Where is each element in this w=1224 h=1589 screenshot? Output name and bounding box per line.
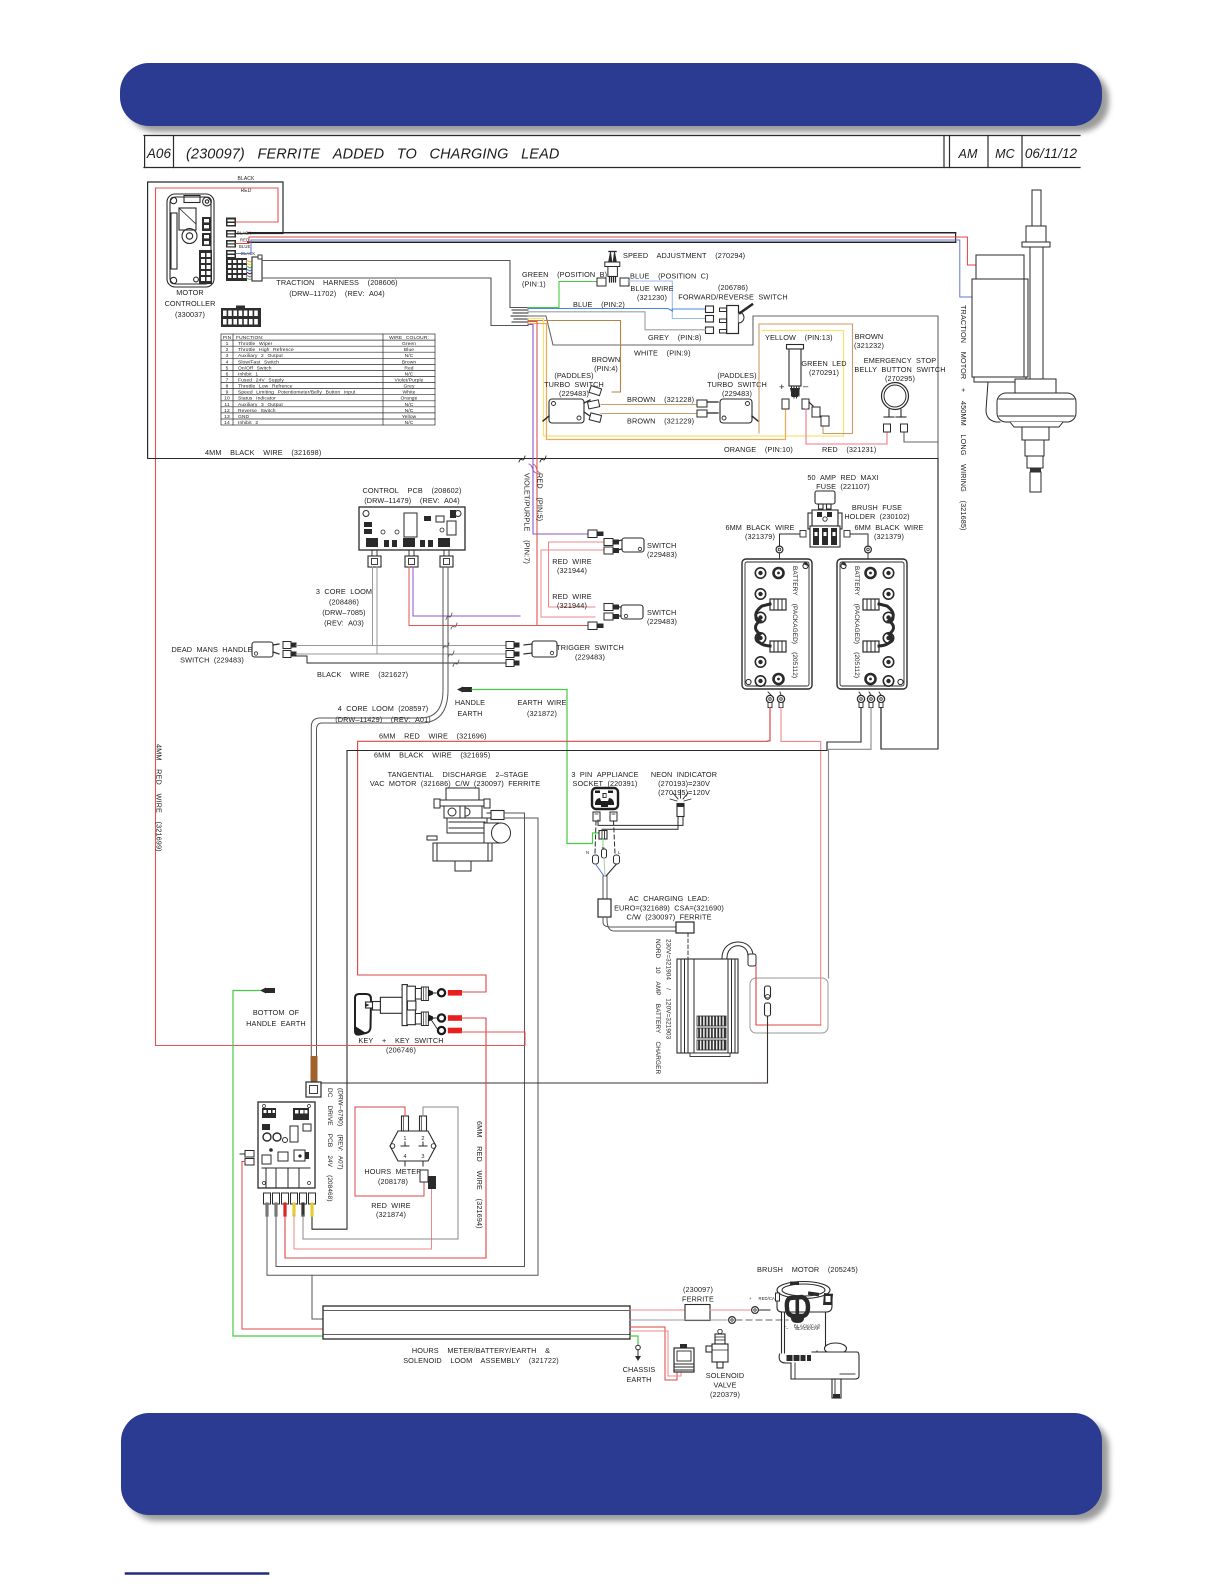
svg-text:(PADDLES): (PADDLES) — [717, 371, 756, 380]
svg-text:RED WIRE: RED WIRE — [552, 557, 592, 566]
green wire pin1 to speed pot — [528, 282, 598, 308]
vac motor drawing — [427, 788, 511, 871]
pin header drawing — [221, 308, 261, 327]
chassis earth — [630, 1336, 638, 1345]
junction transition — [511, 310, 528, 322]
3 pin appliance socket — [592, 788, 618, 809]
svg-text:BROWN: BROWN — [855, 332, 883, 341]
svg-text:SWITCH (229483): SWITCH (229483) — [180, 656, 244, 665]
green earth wire to socket — [472, 690, 599, 844]
svg-text:(229483): (229483) — [647, 617, 677, 626]
svg-text:BLUE (PIN:2): BLUE (PIN:2) — [573, 300, 625, 309]
svg-text:BRUSH FUSE: BRUSH FUSE — [852, 503, 902, 512]
svg-text:(270295): (270295) — [885, 374, 915, 383]
svg-text:(229483): (229483) — [647, 550, 677, 559]
blue pin2 wire — [528, 309, 706, 312]
title block table — [144, 136, 1080, 168]
svg-text:FUNCTION:: FUNCTION: — [236, 335, 264, 341]
svg-text:Speed Limiting Potentiometer/B: Speed Limiting Potentiometer/Belly Butto… — [238, 390, 356, 396]
svg-text:EURO=(321689) CSA=(321690): EURO=(321689) CSA=(321690) — [614, 904, 724, 913]
red 321231 wire — [806, 409, 887, 444]
svg-text:CHASSIS: CHASSIS — [623, 1365, 656, 1374]
svg-text:Brown: Brown — [402, 359, 417, 365]
svg-text:CONTROLLER: CONTROLLER — [165, 299, 216, 308]
svg-text:(321944): (321944) — [557, 566, 587, 575]
svg-text:TRACTION MOTOR + 450MM LON: TRACTION MOTOR + 450MM LONG WIRING (3216… — [959, 305, 968, 531]
svg-text:AC CHARGING LEAD:: AC CHARGING LEAD: — [629, 894, 710, 903]
svg-text:(270195)=120V: (270195)=120V — [658, 788, 710, 797]
thick traction bundle wires to motor — [248, 232, 956, 234]
svg-text:SOLENOID LOOM ASSEMBLY (321: SOLENOID LOOM ASSEMBLY (321722) — [403, 1356, 559, 1365]
svg-text:8: 8 — [226, 384, 229, 390]
svg-text:FUSE (221107): FUSE (221107) — [816, 482, 870, 491]
svg-text:HOURS METER/BATTERY/EARTH &: HOURS METER/BATTERY/EARTH & — [412, 1346, 550, 1355]
svg-text:Inhibit 2: Inhibit 2 — [238, 420, 258, 426]
svg-text:Red: Red — [404, 365, 413, 371]
svg-text:SWITCH: SWITCH — [647, 608, 676, 617]
svg-text:N/C: N/C — [405, 408, 414, 414]
svg-text:MC: MC — [995, 147, 1016, 161]
svg-text:6: 6 — [226, 371, 229, 377]
svg-text:(206786): (206786) — [718, 283, 748, 292]
bottom of handle earth — [260, 988, 266, 994]
break marks — [519, 456, 525, 462]
svg-text:White: White — [402, 390, 415, 396]
svg-text:13: 13 — [224, 414, 230, 420]
svg-text:Violet/Purple: Violet/Purple — [395, 378, 424, 384]
svg-text:3 CORE LOOM: 3 CORE LOOM — [316, 587, 372, 596]
svg-text:Grey: Grey — [404, 384, 415, 390]
svg-text:(321379): (321379) — [745, 532, 775, 541]
ring + red cap terminals — [438, 989, 445, 996]
svg-text:9: 9 — [226, 390, 229, 396]
svg-text:(DRW–7085): (DRW–7085) — [322, 608, 365, 617]
svg-text:Fused 24V Supply: Fused 24V Supply — [238, 378, 284, 384]
pin function table — [221, 334, 435, 425]
svg-text:6MM BLACK WIRE: 6MM BLACK WIRE — [725, 523, 794, 532]
svg-text:(270291): (270291) — [809, 368, 839, 377]
svg-text:SPEED ADJUSTMENT (270294): SPEED ADJUSTMENT (270294) — [623, 251, 745, 260]
svg-text:(229483): (229483) — [559, 389, 589, 398]
svg-text:N/C: N/C — [405, 420, 414, 426]
svg-text:1: 1 — [403, 1136, 406, 1142]
svg-text:ORANGE (PIN:10): ORANGE (PIN:10) — [724, 445, 793, 454]
brown 321228 wire — [601, 404, 699, 406]
svg-text:Status Indicator: Status Indicator — [238, 396, 276, 402]
svg-text:TANGENTIAL DISCHARGE 2–STAGE: TANGENTIAL DISCHARGE 2–STAGE — [388, 770, 529, 779]
svg-text:RED: RED — [241, 188, 252, 194]
svg-text:RED (321231): RED (321231) — [822, 445, 876, 454]
svg-text:N/C: N/C — [405, 371, 414, 377]
svg-text:BLUE WIRE: BLUE WIRE — [630, 284, 673, 293]
brown pin4 wire — [528, 321, 621, 393]
motor controller body — [167, 194, 214, 287]
svg-text:TRACTION HARNESS (208606): TRACTION HARNESS (208606) — [276, 278, 397, 287]
svg-text:6MM RED WIRE (321696): 6MM RED WIRE (321696) — [379, 732, 487, 741]
pcb connectors below — [368, 556, 453, 567]
svg-text:On/Off Switch: On/Off Switch — [238, 365, 272, 371]
svg-text:14: 14 — [224, 420, 230, 426]
battery 1 output rings — [766, 695, 773, 702]
svg-text:+ RED/CAP: + RED/CAP — [749, 1296, 778, 1301]
speed adjustment pot — [605, 251, 620, 282]
grey to ring + dashed to motor — [630, 1319, 727, 1321]
svg-text:Reverse Switch: Reverse Switch — [238, 408, 276, 414]
pcb red + violet staircase — [409, 567, 588, 626]
svg-text:(229483): (229483) — [575, 653, 605, 662]
svg-text:BROWN: BROWN — [592, 355, 620, 364]
svg-text:Auxiliary 2 Output: Auxiliary 2 Output — [238, 353, 283, 359]
svg-text:(REV: A03): (REV: A03) — [324, 619, 364, 628]
svg-text:EARTH: EARTH — [457, 709, 482, 718]
svg-text:4MM RED WIRE (321699): 4MM RED WIRE (321699) — [155, 744, 164, 852]
svg-text:(206746): (206746) — [386, 1046, 416, 1055]
brown 321232 loop — [759, 324, 853, 434]
svg-text:CONTROL PCB (208602): CONTROL PCB (208602) — [363, 486, 462, 495]
solenoid connector block — [674, 1348, 694, 1372]
svg-text:SOCKET (220391): SOCKET (220391) — [573, 779, 638, 788]
svg-text:GREEN (POSITION B): GREEN (POSITION B) — [522, 270, 607, 279]
svg-text:PIN: PIN — [223, 335, 232, 341]
bottom connector row — [264, 1193, 316, 1204]
orange pin10 wire — [528, 324, 786, 440]
4mm red wire join to T3 — [156, 1032, 526, 1046]
battery 1 strap — [756, 599, 787, 652]
svg-text:N/C: N/C — [405, 402, 414, 408]
battery 2 output rings — [857, 695, 864, 702]
svg-text:N: N — [586, 850, 589, 855]
svg-text:(229483): (229483) — [722, 389, 752, 398]
break marks on cluster wires — [443, 613, 459, 667]
coloured tails to harness plug — [247, 261, 252, 280]
red pair to solenoid block — [630, 1327, 677, 1380]
svg-text:– BLACK/CAP: – BLACK/CAP — [784, 1324, 821, 1329]
svg-text:4: 4 — [226, 359, 229, 365]
svg-text:(PIN:1): (PIN:1) — [522, 280, 546, 289]
svg-text:KEY + KEY SWITCH: KEY + KEY SWITCH — [358, 1036, 443, 1045]
svg-text:BLACK: BLACK — [238, 176, 255, 182]
left connectors — [245, 1151, 254, 1158]
extra black connector + wire — [428, 1176, 436, 1189]
svg-text:6MM BLACK WIRE: 6MM BLACK WIRE — [854, 523, 923, 532]
bottom left navy line — [126, 1572, 268, 1575]
svg-text:(208178): (208178) — [378, 1177, 408, 1186]
charger negative black wire — [321, 1016, 768, 1083]
svg-text:TURBO SWITCH: TURBO SWITCH — [707, 380, 767, 389]
red wire in bundle — [236, 237, 976, 265]
svg-text:11: 11 — [224, 402, 229, 408]
brush motor details — [790, 1282, 799, 1286]
svg-text:BLACK WIRE (321627): BLACK WIRE (321627) — [317, 670, 408, 679]
traction harness pair going to junction — [262, 261, 528, 308]
svg-text:Yellow: Yellow — [402, 414, 417, 420]
svg-text:(321232): (321232) — [854, 341, 884, 350]
battery 2 strap — [863, 599, 894, 652]
switch 1 — [604, 539, 619, 555]
svg-text:DC DRIVE PCB 24V (208468): DC DRIVE PCB 24V (208468) — [326, 1088, 333, 1202]
svg-text:HANDLE EARTH: HANDLE EARTH — [246, 1019, 306, 1028]
fan of wires to loom bar — [294, 1189, 432, 1249]
svg-text:VIOLET/PURPLE (PIN:7): VIOLET/PURPLE (PIN:7) — [523, 473, 532, 564]
neon wire double line — [598, 817, 683, 826]
svg-text:(270193)=230V: (270193)=230V — [658, 779, 710, 788]
svg-text:BLUE: BLUE — [239, 244, 250, 249]
svg-text:GREY (PIN:8): GREY (PIN:8) — [648, 333, 702, 342]
svg-text:1: 1 — [226, 341, 229, 347]
battery 2 — [837, 559, 907, 689]
svg-text:GND: GND — [238, 414, 250, 420]
svg-text:VALVE: VALVE — [714, 1381, 737, 1390]
svg-text:BROWN (321229): BROWN (321229) — [627, 417, 694, 426]
outputs right of bar — [630, 1309, 685, 1311]
svg-text:A06: A06 — [146, 146, 172, 161]
svg-text:YELLOW (PIN:13): YELLOW (PIN:13) — [765, 333, 833, 342]
svg-text:EARTH: EARTH — [626, 1375, 651, 1384]
hours meter grey loop — [303, 1107, 458, 1239]
svg-text:BELLY BUTTON SWITCH: BELLY BUTTON SWITCH — [854, 365, 945, 374]
svg-text:(DRW–6790) (REV: A07): (DRW–6790) (REV: A07) — [337, 1088, 344, 1170]
svg-text:TRIGGER SWITCH: TRIGGER SWITCH — [556, 643, 624, 652]
charger cable arc — [722, 942, 753, 958]
svg-text:NORD 10 AMP BATTERY CHARGE: NORD 10 AMP BATTERY CHARGER — [654, 939, 661, 1074]
svg-text:DEAD MANS HANDLE: DEAD MANS HANDLE — [171, 645, 252, 654]
black B- loop wire — [148, 182, 283, 458]
svg-text:4MM BLACK WIRE (321698): 4MM BLACK WIRE (321698) — [205, 448, 321, 457]
AC charging lead — [602, 876, 604, 899]
14 pin connector + plug — [226, 258, 247, 281]
header blue banner shadow — [127, 70, 1109, 132]
svg-text:Blue: Blue — [404, 347, 414, 353]
svg-text:RED WIRE: RED WIRE — [552, 592, 592, 601]
svg-text:Throttle Wiper: Throttle Wiper — [238, 341, 273, 347]
svg-text:BATTERY (PACKAGED) (205112): BATTERY (PACKAGED) (205112) — [853, 566, 860, 678]
6mm black wire 321695 — [312, 742, 861, 1229]
svg-text:GREEN LED: GREEN LED — [801, 359, 846, 368]
svg-text:(PIN:4): (PIN:4) — [594, 364, 618, 373]
red wire 321944 staircases — [549, 542, 605, 607]
header blue banner — [120, 63, 1102, 126]
svg-text:BROWN (321228): BROWN (321228) — [627, 395, 694, 404]
svg-text:Throttle Low Refrence: Throttle Low Refrence — [238, 384, 293, 390]
footer blue banner — [121, 1413, 1102, 1515]
svg-text:(PADDLES): (PADDLES) — [554, 371, 593, 380]
svg-text:6MM BLACK WIRE (321695): 6MM BLACK WIRE (321695) — [374, 751, 490, 760]
4 core loom brown tail + connector — [311, 1056, 318, 1082]
svg-text:–: – — [803, 381, 809, 392]
6mm red wire 321696 — [358, 708, 770, 993]
svg-text:(220379): (220379) — [710, 1390, 740, 1399]
right side connectors + trigger switch — [506, 642, 519, 667]
dc drive pcb — [258, 1102, 315, 1188]
brush holder dark ring — [787, 1297, 808, 1316]
svg-text:7: 7 — [226, 378, 229, 384]
svg-text:5: 5 — [226, 365, 229, 371]
svg-text:(321230): (321230) — [637, 293, 667, 302]
vac cable + ferrite — [487, 812, 491, 814]
svg-text:HOURS METER: HOURS METER — [364, 1167, 421, 1176]
svg-text:(DRW–11479) (REV: A04): (DRW–11479) (REV: A04) — [364, 496, 460, 505]
svg-text:BOTTOM OF: BOTTOM OF — [253, 1008, 300, 1017]
svg-text:HOLDER (230102): HOLDER (230102) — [844, 512, 909, 521]
white pin9 wire + e-stop loop — [528, 316, 938, 749]
yellow pin13 wire — [528, 319, 844, 437]
svg-text:10: 10 — [224, 396, 230, 402]
svg-text:Green: Green — [402, 341, 416, 347]
svg-text:4 CORE LOOM (208597): 4 CORE LOOM (208597) — [338, 704, 429, 713]
svg-text:(321872): (321872) — [527, 709, 557, 718]
hours meter red loop — [355, 1107, 424, 1196]
6mm red wire 321694 from T2 — [285, 1018, 486, 1258]
svg-text:FORWARD/REVERSE SWITCH: FORWARD/REVERSE SWITCH — [678, 293, 787, 302]
svg-text:RED (PIN:5): RED (PIN:5) — [536, 473, 545, 521]
svg-text:AM: AM — [958, 147, 978, 161]
svg-text:50 AMP RED MAXI: 50 AMP RED MAXI — [807, 473, 878, 482]
pcb wires down: grey pair — [372, 567, 374, 646]
svg-text:NEON INDICATOR: NEON INDICATOR — [651, 770, 717, 779]
svg-text:N/C: N/C — [405, 353, 414, 359]
svg-text:230V=321904 / 120V=321903: 230V=321904 / 120V=321903 — [665, 939, 672, 1040]
svg-text:EARTH WIRE: EARTH WIRE — [518, 698, 567, 707]
svg-text:4: 4 — [403, 1154, 406, 1160]
svg-text:BRUSH MOTOR (205245): BRUSH MOTOR (205245) — [757, 1265, 858, 1274]
svg-text:3 PIN APPLIANCE: 3 PIN APPLIANCE — [571, 770, 638, 779]
violet / red vertical wires — [528, 325, 588, 535]
red B+ loop wire (4MM RED WIRE 321699) — [156, 188, 279, 1046]
grey pair + black wire to the right — [296, 645, 506, 647]
svg-text:Throttle High Refrence: Throttle High Refrence — [238, 347, 294, 353]
svg-text:SOLENOID: SOLENOID — [706, 1371, 745, 1380]
svg-text:VAC MOTOR (321686) C/W (230097: VAC MOTOR (321686) C/W (230097) FERRITE — [370, 779, 540, 788]
svg-text:EMERGENCY STOP: EMERGENCY STOP — [864, 356, 936, 365]
svg-text:12: 12 — [224, 408, 230, 414]
blue wire from pot to switch — [628, 281, 706, 319]
svg-text:3: 3 — [421, 1154, 424, 1160]
svg-text:Slow/Fast Switch: Slow/Fast Switch — [238, 359, 279, 365]
svg-text:FERRITE: FERRITE — [682, 1295, 714, 1304]
svg-text:3: 3 — [226, 353, 229, 359]
brown 321229 wire — [601, 413, 699, 415]
svg-text:6MM RED WIRE (321694): 6MM RED WIRE (321694) — [475, 1121, 484, 1229]
battery wires bottom — [769, 708, 771, 741]
svg-text:(330037): (330037) — [175, 310, 205, 319]
svg-text:Auxiliary 3 Output: Auxiliary 3 Output — [238, 402, 283, 408]
footer blue banner shadow — [128, 1420, 1109, 1521]
svg-text:C/W (230097) FERRITE: C/W (230097) FERRITE — [626, 913, 711, 922]
svg-text:2: 2 — [421, 1136, 424, 1142]
50A maxi fuse — [815, 491, 835, 509]
svg-text:WIRE COLOUR:: WIRE COLOUR: — [389, 335, 429, 341]
grey pin8 wire — [528, 312, 706, 330]
svg-text:(208486): (208486) — [329, 598, 359, 607]
brush fuse holder — [808, 510, 842, 547]
svg-text:2: 2 — [226, 347, 229, 353]
svg-text:(DRW–11702) (REV: A04): (DRW–11702) (REV: A04) — [289, 289, 385, 298]
svg-text:WHITE (PIN:9): WHITE (PIN:9) — [634, 349, 690, 358]
key switch terminal studs — [415, 987, 428, 1026]
svg-text:MOTOR: MOTOR — [176, 288, 204, 297]
svg-text:Inhibit 1: Inhibit 1 — [238, 371, 258, 377]
svg-text:+: + — [779, 382, 785, 393]
switch 2 — [604, 604, 619, 621]
blue wire in bundle — [236, 240, 972, 297]
svg-text:SWITCH: SWITCH — [647, 541, 676, 550]
svg-text:06/11/12: 06/11/12 — [1025, 146, 1078, 161]
neon indicator drawing — [670, 790, 691, 801]
svg-text:(321874): (321874) — [376, 1210, 406, 1219]
controller side connectors — [226, 218, 236, 259]
svg-text:(230097): (230097) — [683, 1285, 713, 1294]
LED pads — [782, 399, 789, 409]
battery 1 — [742, 559, 812, 689]
handle earth arrow — [457, 687, 463, 693]
connector fed by violet — [588, 530, 597, 538]
svg-text:BLUE (POSITION C): BLUE (POSITION C) — [630, 272, 709, 281]
charger output connector box — [750, 978, 828, 1033]
svg-text:RED WIRE: RED WIRE — [371, 1201, 411, 1210]
earth pin connector — [599, 831, 607, 840]
svg-text:BATTERY (PACKAGED) (205112): BATTERY (PACKAGED) (205112) — [791, 566, 798, 678]
svg-text:(321379): (321379) — [874, 532, 904, 541]
svg-text:Orange: Orange — [401, 396, 418, 402]
svg-text:HANDLE: HANDLE — [455, 698, 485, 707]
svg-text:(230097) FERRITE ADDED TO: (230097) FERRITE ADDED TO CHARGING LEAD — [186, 147, 559, 163]
svg-text:(321944): (321944) — [557, 601, 587, 610]
